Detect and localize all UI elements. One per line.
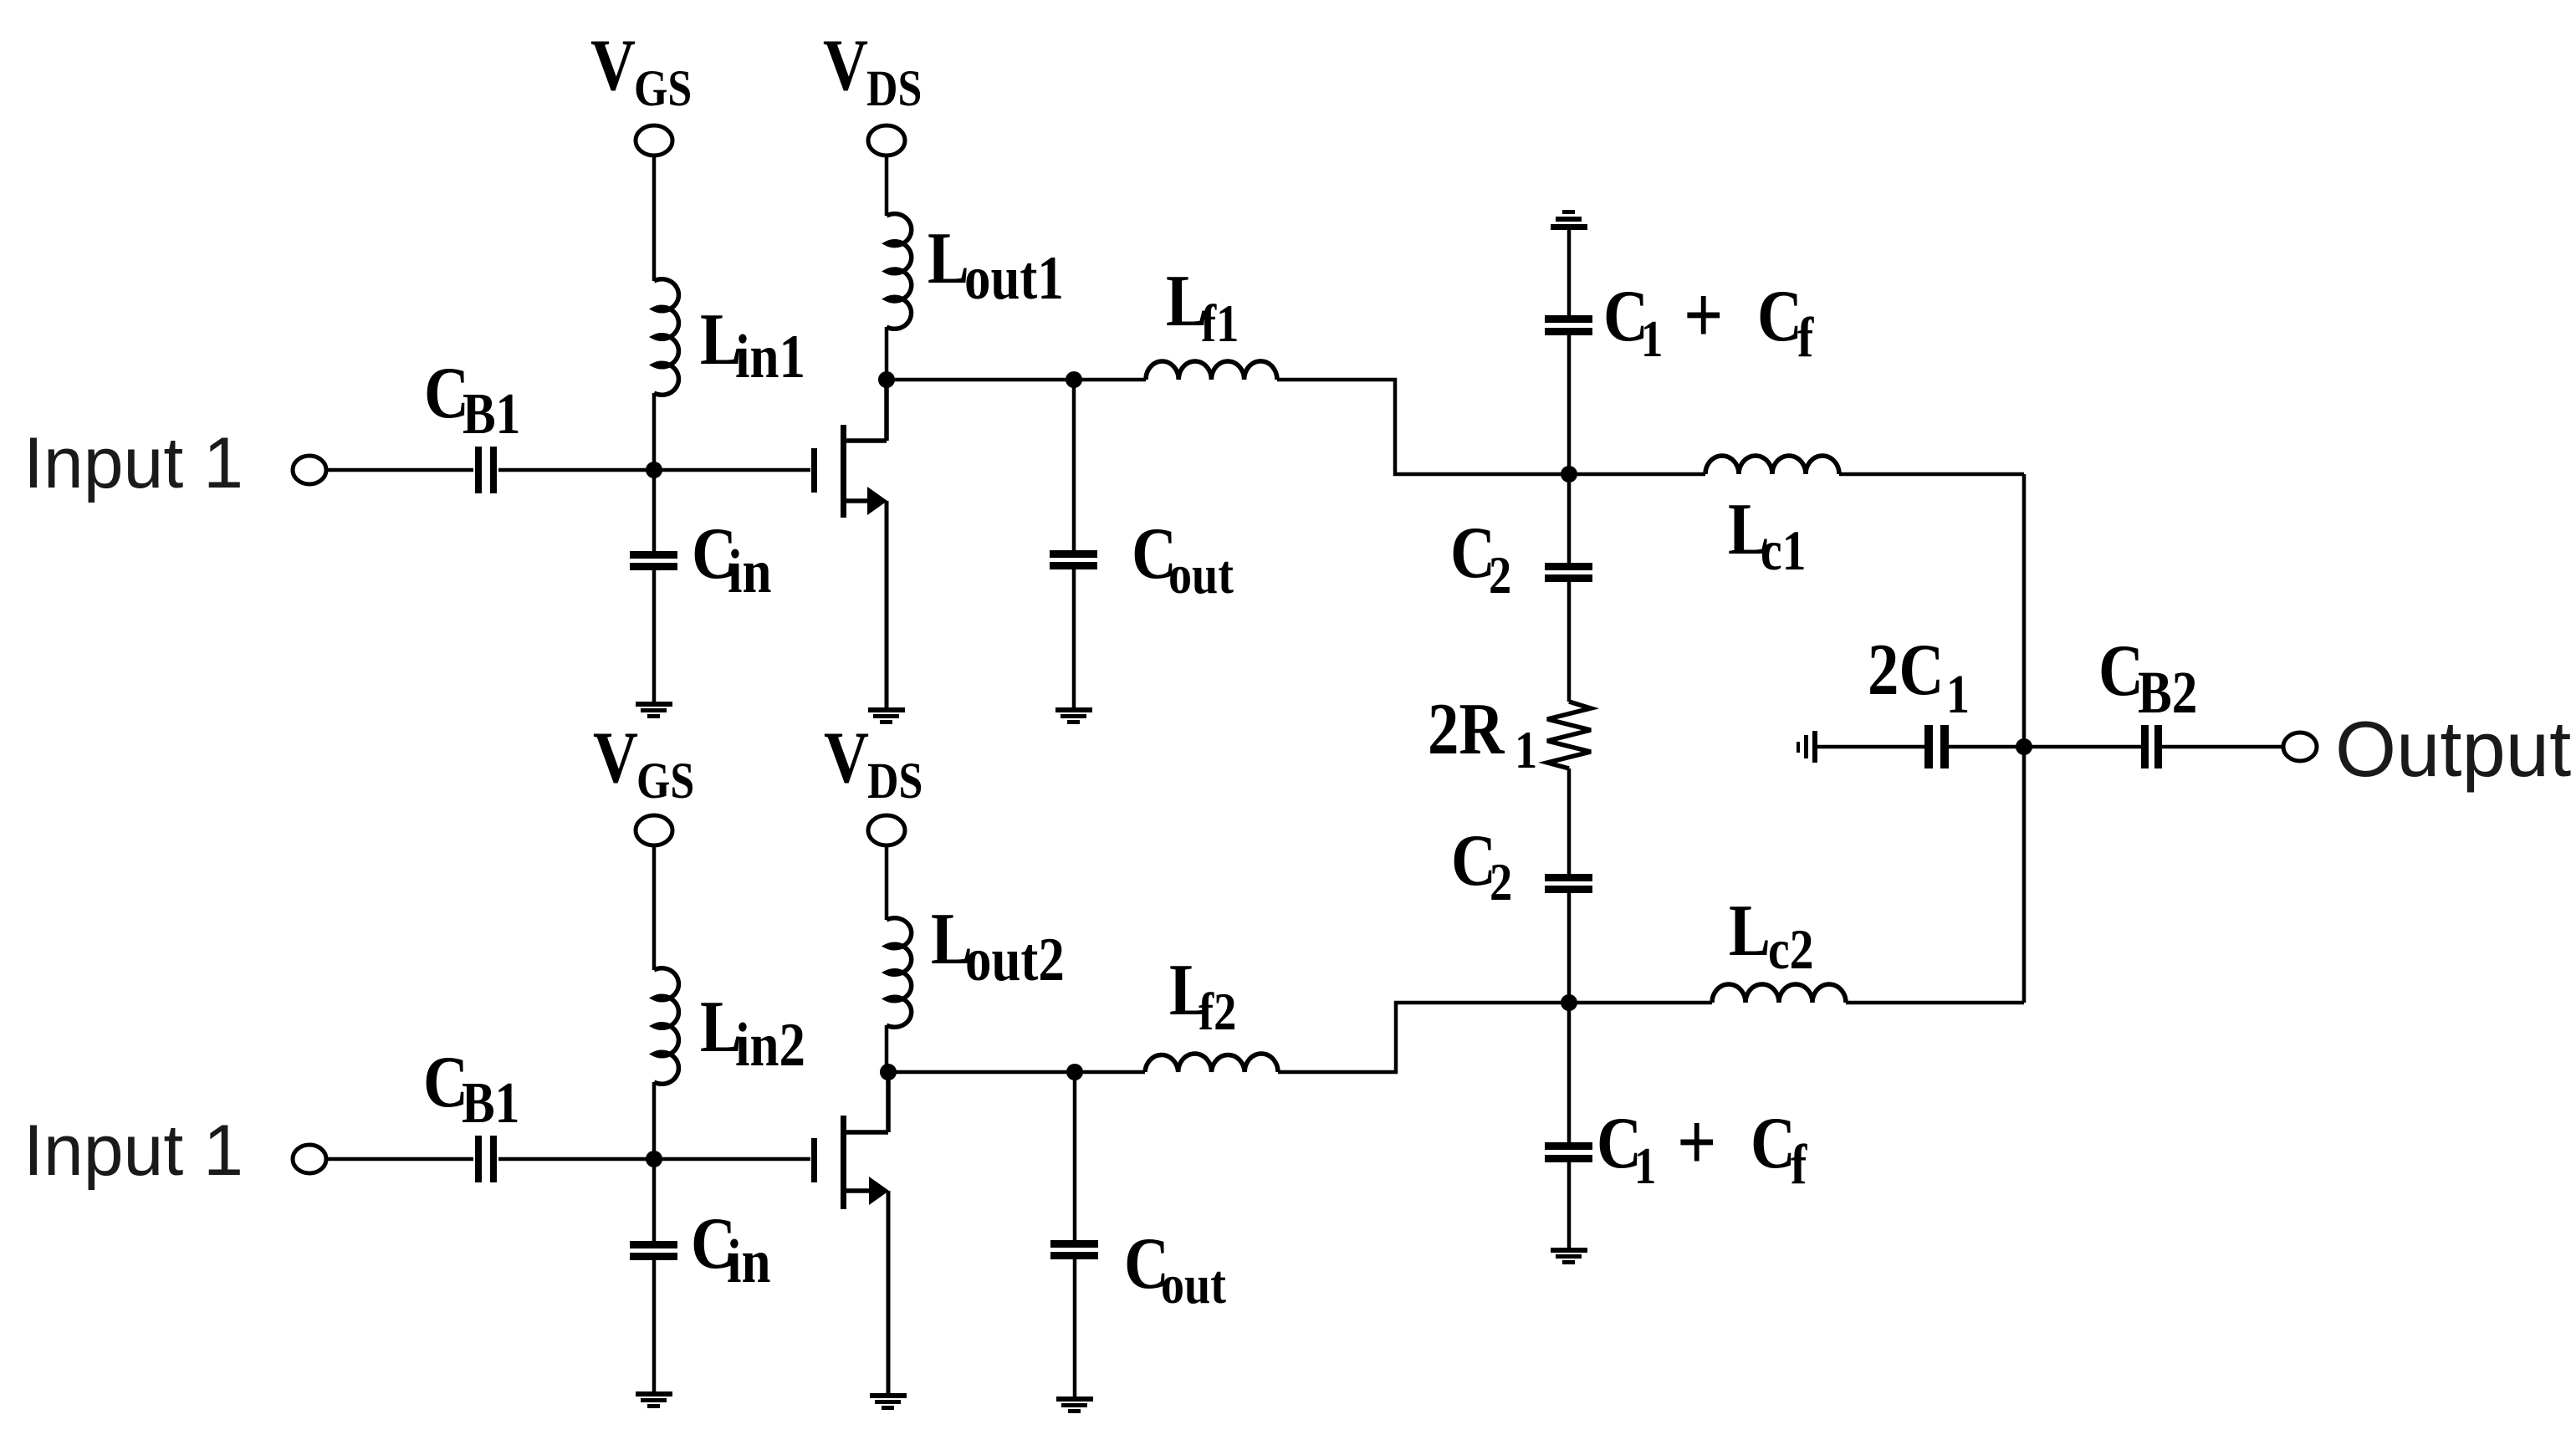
svg-text:L: L xyxy=(928,217,969,299)
svg-text:f2: f2 xyxy=(1199,982,1236,1041)
wire 2C1 to junction xyxy=(1949,745,2141,749)
svg-text:+: + xyxy=(1677,1096,1716,1187)
svg-text:V: V xyxy=(593,716,638,798)
node output junction xyxy=(2016,738,2032,755)
label C2 (top) xyxy=(1450,511,1511,605)
svg-text:f: f xyxy=(1797,306,1814,369)
label Cin (bottom) xyxy=(691,1202,770,1295)
node ladder bottom junction xyxy=(1561,994,1577,1011)
wire Lout1 to drain node xyxy=(885,327,889,380)
label 2C1 xyxy=(1868,628,1970,725)
svg-text:+: + xyxy=(1684,269,1723,360)
node Cout1 tap xyxy=(1066,371,1082,388)
svg-text:2R: 2R xyxy=(1428,687,1505,769)
inductor Lf1 xyxy=(1146,361,1277,380)
label C2 (bottom) xyxy=(1451,819,1512,911)
svg-text:1: 1 xyxy=(1641,311,1663,368)
svg-text:C: C xyxy=(1751,1101,1796,1183)
transistor M2 xyxy=(811,1116,846,1209)
wire CB1 to gate xyxy=(498,468,810,472)
svg-text:C: C xyxy=(1757,274,1802,356)
svg-text:Input 1: Input 1 xyxy=(23,423,243,503)
wire to junction and C2 xyxy=(1567,335,1572,563)
inductor Lout1 xyxy=(887,214,912,329)
capacitor C1+Cf (bottom) xyxy=(1545,1142,1592,1162)
input terminal Input 1 (bottom) xyxy=(293,1145,326,1173)
wire VDS stem xyxy=(885,156,889,216)
svg-text:Output: Output xyxy=(2335,705,2571,793)
node drain1 xyxy=(878,371,895,388)
capacitor CB2 xyxy=(2141,725,2162,768)
capacitor Cout (bottom) xyxy=(1050,1240,1098,1259)
ground (rotated left, at 2C1) xyxy=(1797,731,1817,763)
capacitor Cin (top) xyxy=(630,551,677,570)
capacitor C2 (top) xyxy=(1545,563,1592,582)
inductor Lin2 xyxy=(654,968,678,1085)
label Lout2 xyxy=(931,897,1065,993)
ground (under Cout top) xyxy=(1055,707,1092,724)
svg-text:out: out xyxy=(1161,1254,1226,1315)
label C1+Cf (top) xyxy=(1603,269,1814,369)
inductor Lout2 xyxy=(887,918,912,1028)
wire ladder top stem xyxy=(1567,230,1572,315)
svg-text:GS: GS xyxy=(634,61,692,117)
terminal VGS (bottom) xyxy=(636,815,672,845)
wire VGS stem xyxy=(652,156,657,281)
terminal VDS (bottom) xyxy=(868,815,905,845)
svg-text:2C: 2C xyxy=(1868,628,1944,710)
label CB2 xyxy=(2098,629,2197,726)
wire resistor to C2 bottom xyxy=(1567,768,1572,874)
svg-text:V: V xyxy=(824,716,869,798)
capacitor CB1 (bottom) xyxy=(475,1136,497,1182)
svg-text:out: out xyxy=(1168,544,1234,605)
ground (under M1 source) xyxy=(868,707,905,724)
resistor 2R1 xyxy=(1547,702,1591,768)
svg-text:DS: DS xyxy=(866,61,922,117)
inductor Lf2 xyxy=(1145,1054,1278,1072)
node A (top gate node) xyxy=(646,462,662,478)
svg-text:V: V xyxy=(590,23,636,105)
capacitor C2 (bottom) xyxy=(1545,874,1592,893)
label VGS (top) xyxy=(590,23,692,117)
ground (under Cout bottom) xyxy=(1056,1396,1093,1413)
node ladder top junction xyxy=(1561,466,1577,483)
wire Lin1 to node and down to Cin xyxy=(652,393,657,552)
svg-text:in: in xyxy=(727,1227,770,1295)
capacitor 2C1 xyxy=(1924,725,1949,768)
label Lin2 xyxy=(700,985,805,1079)
node gate node (bottom) xyxy=(646,1151,662,1167)
node Cout2 tap xyxy=(1066,1064,1083,1080)
svg-text:B1: B1 xyxy=(462,1071,519,1136)
label CB1 (bottom) xyxy=(423,1040,519,1136)
label VDS (bottom) xyxy=(824,716,923,809)
svg-text:f1: f1 xyxy=(1201,294,1239,353)
label Cout (top) xyxy=(1132,512,1234,605)
label Lout1 xyxy=(928,217,1064,312)
wire CB2 to output terminal xyxy=(2162,745,2283,749)
label C1+Cf (bottom) xyxy=(1597,1096,1807,1196)
label Lin1 xyxy=(700,298,805,391)
input terminal Input 1 (top) xyxy=(293,456,326,484)
svg-text:GS: GS xyxy=(636,753,694,809)
svg-text:C: C xyxy=(2098,629,2144,711)
wire to bottom junction and C1+Cf bottom xyxy=(1567,893,1572,1142)
wire Lf1 to step xyxy=(1277,380,1569,474)
capacitor CB1 (top) xyxy=(475,447,497,493)
svg-text:c2: c2 xyxy=(1768,918,1814,981)
ground (under Cin top) xyxy=(636,702,672,718)
label Lf1 xyxy=(1166,259,1239,353)
ground (under M2 source) xyxy=(870,1393,907,1410)
inductor Lc1 xyxy=(1569,472,1705,477)
label Lc2 xyxy=(1729,889,1814,981)
label VDS (top) xyxy=(823,23,922,117)
wire drain bus to Lf1 xyxy=(887,378,1146,382)
svg-text:c1: c1 xyxy=(1761,519,1807,582)
wire C2 to resistor xyxy=(1567,582,1572,702)
svg-text:out1: out1 xyxy=(964,243,1064,312)
svg-text:1: 1 xyxy=(1946,664,1970,725)
wire right vertical xyxy=(2022,474,2027,1003)
svg-text:V: V xyxy=(823,23,868,105)
svg-text:L: L xyxy=(1729,889,1771,971)
wire Cout1 stem xyxy=(1072,380,1076,550)
svg-text:in1: in1 xyxy=(735,322,805,391)
wire to ladder bottom ground xyxy=(1567,1162,1572,1248)
svg-text:f: f xyxy=(1791,1133,1807,1196)
wire input to CB1 xyxy=(326,468,473,472)
label Cin (top) xyxy=(692,512,771,605)
capacitor C1+Cf (top) xyxy=(1545,315,1592,335)
svg-text:1: 1 xyxy=(1634,1138,1656,1195)
label VGS (bottom) xyxy=(593,716,694,809)
transistor M1 xyxy=(811,425,846,518)
ground (ladder bottom) xyxy=(1551,1248,1587,1264)
node drain2 xyxy=(880,1064,897,1080)
label CB1 (top) xyxy=(424,351,520,447)
label Lc1 xyxy=(1728,488,1807,582)
label 2R1 xyxy=(1428,687,1537,779)
svg-text:in2: in2 xyxy=(735,1010,805,1079)
svg-text:out2: out2 xyxy=(965,925,1065,993)
svg-text:B1: B1 xyxy=(463,382,520,447)
svg-text:2: 2 xyxy=(1490,852,1512,911)
svg-text:DS: DS xyxy=(867,753,923,809)
wire Cin to ground xyxy=(652,570,657,702)
svg-text:B2: B2 xyxy=(2138,659,2197,726)
inductor Lin1 xyxy=(654,279,678,396)
inverted ground (top of ladder) xyxy=(1551,210,1587,230)
capacitor Cin (bottom) xyxy=(630,1241,677,1260)
output terminal xyxy=(2283,733,2317,761)
label Lf2 xyxy=(1169,948,1236,1041)
svg-text:2: 2 xyxy=(1489,545,1511,605)
label Cout (bottom) xyxy=(1124,1222,1226,1315)
capacitor Cout (top) xyxy=(1050,550,1097,569)
svg-text:in: in xyxy=(728,537,771,605)
wire Lf2 to step up xyxy=(1278,1003,1569,1072)
svg-text:1: 1 xyxy=(1515,720,1537,779)
svg-text:Input 1: Input 1 xyxy=(23,1111,243,1191)
terminal VDS (top) xyxy=(868,125,905,156)
wire Cout to ground xyxy=(1072,569,1076,708)
ground (under Cin bottom) xyxy=(636,1391,672,1408)
terminal VGS (top) xyxy=(636,125,672,156)
wire drain bus to Lf2 xyxy=(888,1070,1145,1075)
wire ground to 2C1 xyxy=(1817,745,1924,749)
inductor Lc2 xyxy=(1569,1001,1712,1005)
